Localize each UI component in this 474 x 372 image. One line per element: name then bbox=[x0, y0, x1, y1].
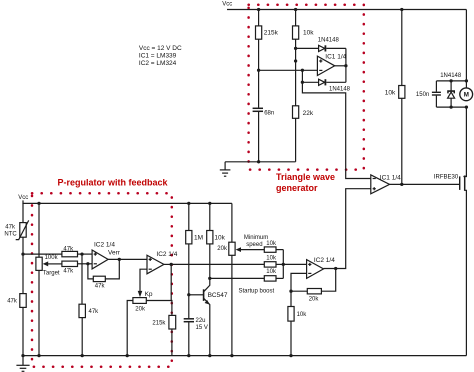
wire: motor top rail bbox=[436, 80, 466, 82]
wire: triangle output tap to comparator bbox=[302, 82, 370, 178]
junction 10k on left rail bbox=[208, 202, 211, 205]
resistor 47k (feedback) bbox=[88, 259, 119, 289]
junction rail 10k ref bbox=[289, 354, 292, 357]
junction on Vcc rail at pull-up 10k bbox=[400, 8, 403, 11]
svg-text:1N4148: 1N4148 bbox=[440, 73, 462, 79]
junction on Vcc rail at 10k bbox=[294, 8, 297, 11]
potentiometer 20k (minimum speed) bbox=[217, 203, 235, 355]
svg-text:1M: 1M bbox=[194, 234, 203, 241]
svg-text:10k: 10k bbox=[266, 256, 277, 262]
svg-text:47k: 47k bbox=[7, 299, 18, 305]
junction feedback on output bbox=[334, 267, 337, 270]
svg-text:IC2 1/4: IC2 1/4 bbox=[156, 251, 177, 258]
junction feedback node bbox=[289, 290, 292, 293]
wire: summing node to + input bbox=[283, 263, 306, 265]
svg-text:Startup boost: Startup boost bbox=[239, 288, 275, 294]
wire: startup boost line bbox=[210, 278, 275, 294]
junction rail emitter bbox=[208, 354, 211, 357]
svg-text:IC1 = LM339: IC1 = LM339 bbox=[139, 52, 177, 59]
svg-text:20k: 20k bbox=[135, 307, 146, 313]
svg-text:10k: 10k bbox=[266, 269, 277, 275]
junction rail Kp bbox=[126, 354, 129, 357]
svg-text:10k: 10k bbox=[385, 89, 396, 96]
svg-text:22u: 22u bbox=[196, 318, 206, 324]
svg-text:1N4148: 1N4148 bbox=[318, 37, 340, 43]
capacitor 68n bbox=[253, 70, 275, 162]
svg-text:47k: 47k bbox=[63, 269, 74, 275]
svg-text:15 V: 15 V bbox=[196, 325, 208, 331]
junction motor top bbox=[465, 79, 468, 82]
junction collector node bbox=[208, 277, 211, 280]
thermistor NTC 47k bbox=[4, 203, 28, 254]
svg-text:1N4148: 1N4148 bbox=[329, 86, 351, 92]
wire: NTC node to upper 47k bbox=[23, 253, 62, 255]
wire: top Vcc rail bbox=[227, 9, 466, 11]
junction 100k pot on left rail bbox=[37, 202, 40, 205]
svg-text:IC1 1/4: IC1 1/4 bbox=[325, 54, 346, 61]
wire: right Vcc drop to motor bbox=[465, 10, 467, 88]
svg-text:47k: 47k bbox=[89, 309, 100, 315]
svg-text:generator: generator bbox=[276, 183, 318, 193]
ground (main, bottom left) bbox=[16, 356, 29, 372]
diode 1N4148 (top, feedback) bbox=[296, 37, 346, 51]
resistor 47k (+ input to ground) bbox=[79, 254, 99, 356]
svg-text:Target: Target bbox=[43, 271, 60, 277]
wire: Verr long line to summing resistor bbox=[171, 263, 264, 265]
svg-text:47k: 47k bbox=[5, 224, 16, 230]
red dotted box: Triangle wave generator bbox=[249, 5, 364, 170]
svg-text:Triangle wave: Triangle wave bbox=[276, 172, 335, 182]
svg-text:20k: 20k bbox=[309, 297, 320, 303]
junction 1M on left rail bbox=[187, 202, 190, 205]
junction on 10k line (top diode tap) bbox=[294, 47, 297, 50]
junction - input node bbox=[86, 262, 89, 265]
svg-text:IC1 1/4: IC1 1/4 bbox=[380, 174, 401, 181]
resistor 22k bbox=[293, 106, 314, 162]
svg-text:20k: 20k bbox=[217, 246, 228, 252]
wire: comparator output to gate bbox=[390, 183, 460, 185]
svg-text:150n: 150n bbox=[416, 92, 429, 98]
wire: PWM ref output bbox=[324, 189, 371, 269]
resistor 10k (collector pull-up) bbox=[207, 203, 226, 278]
op-amp IC1 1/4 (oscillator) bbox=[317, 54, 346, 76]
wire: Kp stage output bbox=[164, 263, 171, 265]
comparator IC1 1/4 (PWM) bbox=[371, 174, 401, 194]
junction base node bbox=[187, 293, 190, 296]
svg-text:215k: 215k bbox=[264, 30, 279, 37]
wire: summing bus bbox=[282, 250, 284, 279]
junction on Vcc rail at 215k bbox=[257, 8, 260, 11]
resistor 10k pull-up (comparator output) bbox=[385, 10, 405, 185]
svg-text:47k: 47k bbox=[63, 246, 74, 252]
op-amp IC2 1/4 (PWM reference) bbox=[307, 257, 336, 279]
resistor 215k (oscillator) bbox=[256, 10, 279, 71]
svg-text:IC2 1/4: IC2 1/4 bbox=[94, 242, 115, 249]
svg-text:P-regulator with feedback: P-regulator with feedback bbox=[58, 177, 169, 187]
junction rail 22u bbox=[187, 354, 190, 357]
svg-text:10k: 10k bbox=[214, 234, 225, 241]
svg-text:Vcc = 12 V DC: Vcc = 12 V DC bbox=[139, 45, 182, 52]
wire: bottom ground rail bbox=[23, 355, 467, 357]
wire: oscillator ground rail bbox=[225, 161, 296, 163]
svg-text:100k: 100k bbox=[45, 255, 59, 261]
junction NTC divider node bbox=[21, 252, 24, 255]
diode 1N4148 (flyback) bbox=[440, 73, 462, 107]
resistor 10k (ref divider to ground) bbox=[288, 291, 307, 355]
svg-text:Kp: Kp bbox=[145, 291, 153, 298]
wire: left Vcc rail bbox=[23, 200, 232, 203]
wiper arrow Target bbox=[43, 261, 62, 276]
resistor 47k (wiper to - input) bbox=[62, 261, 92, 275]
resistor 10k (summing, startup) bbox=[264, 269, 283, 281]
wire: diode bus vertical bbox=[345, 48, 347, 82]
wire: minus node down to lower diode row bbox=[301, 70, 303, 82]
junction on 10k line (+input tap) bbox=[294, 59, 297, 62]
wire: cap node to inverting input of IC1 osc bbox=[259, 69, 318, 71]
junction diode top bbox=[449, 79, 452, 82]
op-amp IC2 1/4 (Kp stage) bbox=[147, 251, 178, 274]
svg-text:NTC: NTC bbox=[4, 231, 17, 237]
transistor BC547 bbox=[189, 278, 228, 355]
red dotted box: P-regulator with feedback bbox=[32, 193, 172, 367]
potentiometer 100k (Target) bbox=[36, 203, 59, 355]
junction rail 47k bbox=[81, 354, 84, 357]
node Vcc (left) label bbox=[18, 195, 28, 201]
wire: motor bottom to MOSFET drain bbox=[463, 107, 466, 176]
resistor 10k (oscillator) bbox=[293, 10, 315, 106]
svg-text:IRFBE30: IRFBE30 bbox=[434, 175, 459, 181]
label: P-regulator with feedback title bbox=[58, 177, 169, 187]
svg-text:10k: 10k bbox=[297, 312, 308, 318]
wire: error amp output bbox=[108, 258, 147, 260]
svg-text:Vcc: Vcc bbox=[18, 195, 28, 201]
transistor IRFBE30 MOSFET bbox=[434, 175, 467, 356]
node Vcc (top) label bbox=[222, 1, 232, 7]
junction diode bottom bbox=[449, 105, 452, 108]
junction lower diode row bbox=[301, 81, 304, 84]
junction rail NTC branch bbox=[21, 354, 24, 357]
svg-text:215k: 215k bbox=[152, 320, 166, 326]
resistor 215k (output to ground) bbox=[152, 264, 175, 355]
junction rail 100k bbox=[37, 354, 40, 357]
junction feedback tap bbox=[118, 258, 121, 261]
resistor 1M (startup charge) bbox=[186, 203, 203, 318]
junction motor bottom bbox=[465, 105, 468, 108]
svg-text:10k: 10k bbox=[303, 30, 314, 37]
svg-text:Vcc: Vcc bbox=[222, 1, 232, 7]
resistor 47k (to + input) bbox=[62, 246, 92, 256]
junction + input node bbox=[80, 252, 83, 255]
junction at osc output bbox=[344, 64, 347, 67]
motor M bbox=[460, 88, 473, 101]
label: Triangle wave generator title bbox=[276, 172, 335, 193]
resistor 10k (summing, Verr) bbox=[264, 256, 283, 268]
svg-text:22k: 22k bbox=[303, 110, 314, 117]
resistor 20k (feedback) bbox=[291, 269, 336, 303]
wiper arrow minimum speed bbox=[236, 235, 269, 252]
wire: Kp stage - input to wiper bbox=[138, 269, 147, 297]
ground (triangle generator) bbox=[220, 162, 231, 176]
junction lower diode tap bbox=[301, 69, 304, 72]
op-amp IC2 1/4 (error amp) bbox=[92, 242, 121, 269]
svg-text:47k: 47k bbox=[95, 284, 106, 290]
junction Kp output node bbox=[170, 263, 173, 266]
junction summing node bbox=[282, 263, 285, 266]
junction pull-up on output bbox=[400, 183, 403, 186]
resistor 47k (NTC to ground) bbox=[7, 254, 26, 356]
wire: motor bottom rail bbox=[436, 106, 466, 108]
junction at 215k/68n node bbox=[257, 69, 260, 72]
svg-text:IC2 1/4: IC2 1/4 bbox=[314, 257, 335, 264]
svg-text:68n: 68n bbox=[264, 111, 274, 117]
svg-text:10k: 10k bbox=[266, 241, 277, 247]
junction 68n on ground rail bbox=[257, 160, 260, 163]
wire: - input to feedback node bbox=[291, 273, 307, 291]
note text: supply and IC types bbox=[139, 45, 182, 67]
potentiometer Kp 20k bbox=[127, 291, 171, 356]
svg-text:speed: speed bbox=[246, 242, 262, 248]
wire: osc op-amp output bbox=[335, 65, 346, 67]
junction rail 20k pot bbox=[230, 354, 233, 357]
svg-text:Verr: Verr bbox=[108, 250, 121, 257]
svg-text:M: M bbox=[464, 92, 469, 99]
capacitor 150n (snubber) bbox=[416, 81, 441, 107]
diode 1N4148 (bottom, feedback) bbox=[302, 79, 350, 92]
svg-text:BC547: BC547 bbox=[208, 292, 228, 299]
capacitor 22u 15V bbox=[184, 318, 208, 355]
svg-text:Minimum: Minimum bbox=[244, 235, 268, 241]
svg-text:IC2 = LM324: IC2 = LM324 bbox=[139, 60, 177, 67]
resistor 10k (summing, min speed) bbox=[264, 241, 283, 252]
